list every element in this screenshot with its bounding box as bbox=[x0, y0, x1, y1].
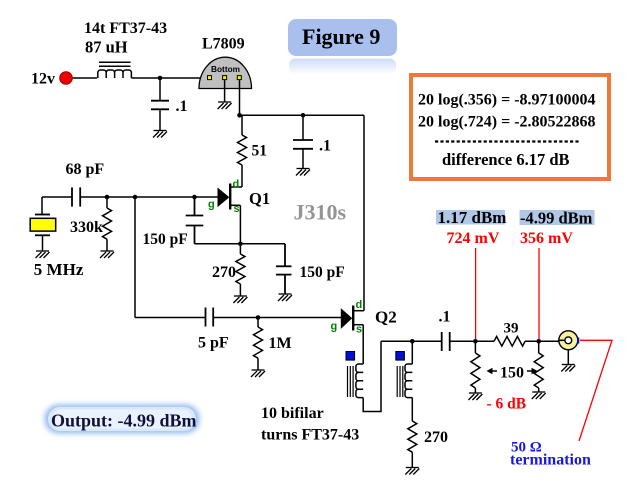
transistor Q1 J310 bbox=[218, 184, 242, 245]
capacitor C6 5 pF bbox=[206, 308, 214, 327]
blue tick at J1 bbox=[577, 338, 579, 344]
wire inductor to regulator pin1 bbox=[131, 77, 207, 79]
svg-text:Output: -4.99 dBm: Output: -4.99 dBm bbox=[51, 411, 197, 431]
svg-text:270: 270 bbox=[424, 429, 448, 446]
resistor R5 270 (secondary load) bbox=[408, 398, 417, 467]
ground below R3 bbox=[251, 370, 265, 377]
terminal 12v (red) bbox=[60, 72, 73, 85]
svg-text:.1: .1 bbox=[176, 98, 188, 115]
svg-text:87 uH: 87 uH bbox=[85, 38, 128, 57]
node junction feedback bbox=[133, 195, 138, 200]
red pointer to termination bbox=[579, 340, 612, 441]
svg-text:termination: termination bbox=[510, 452, 591, 469]
svg-text:68 pF: 68 pF bbox=[66, 161, 105, 178]
node junction at x160 bbox=[158, 76, 163, 81]
svg-text:- 6 dB: - 6 dB bbox=[487, 396, 527, 413]
ground below R2 bbox=[100, 251, 114, 258]
highlight box -4.99 dBm bbox=[520, 210, 595, 225]
svg-text:-4.99 dBm: -4.99 dBm bbox=[520, 208, 593, 227]
svg-text:39: 39 bbox=[504, 321, 519, 337]
svg-text:12v: 12v bbox=[31, 71, 55, 88]
svg-text:150 pF: 150 pF bbox=[143, 231, 188, 248]
svg-text:difference 6.17 dB: difference 6.17 dB bbox=[442, 150, 570, 169]
svg-text:150 pF: 150 pF bbox=[300, 264, 345, 281]
capacitor C5 150 pF (source bypass) bbox=[276, 244, 292, 294]
capacitor C7 .1 (output) bbox=[442, 332, 450, 351]
pin 2 of U1 bbox=[223, 76, 227, 80]
crystal Y1 5 MHz bbox=[30, 215, 56, 251]
svg-text:s: s bbox=[356, 324, 362, 336]
svg-text:d: d bbox=[233, 179, 240, 191]
svg-text:g: g bbox=[208, 199, 215, 211]
node junction 330k top bbox=[105, 195, 110, 200]
node junction Q1 source bbox=[238, 242, 243, 247]
svg-text:Figure 9: Figure 9 bbox=[302, 24, 380, 49]
resistor R2 330k bbox=[103, 197, 112, 251]
svg-text:d: d bbox=[356, 299, 363, 311]
node junction Q1 gate bbox=[192, 195, 197, 200]
wire junction down to C2 bbox=[302, 115, 304, 139]
wire U1 pin2 to ground bbox=[224, 80, 226, 102]
ground below R8 bbox=[532, 392, 546, 399]
ground below R6 bbox=[468, 393, 482, 400]
capacitor C2 .1 bbox=[293, 140, 313, 149]
figure title box bbox=[288, 19, 397, 75]
wire C3 to Q1 gate bbox=[80, 196, 218, 198]
wire U1 pin3 down to 9v rail bbox=[239, 80, 241, 115]
transformer T1 secondary winding bbox=[405, 364, 412, 398]
wire C1 to ground bbox=[159, 109, 161, 130]
svg-text:5 MHz: 5 MHz bbox=[34, 260, 84, 279]
label 150 with arrows bbox=[487, 365, 538, 382]
resistor R4 270 bbox=[236, 244, 245, 296]
svg-text:.1: .1 bbox=[439, 309, 451, 326]
svg-text:20 log(.724) = -2.80522868: 20 log(.724) = -2.80522868 bbox=[418, 114, 596, 131]
red probe line 356mV bbox=[538, 248, 540, 339]
svg-text:s: s bbox=[234, 203, 240, 215]
resistor R3 1M bbox=[254, 318, 263, 370]
connector J1 output jack bbox=[559, 331, 578, 364]
svg-text:150: 150 bbox=[500, 365, 524, 382]
ground below C1 bbox=[153, 131, 167, 138]
node junction pad right bbox=[536, 339, 541, 344]
wire secondary top bbox=[411, 341, 413, 364]
svg-text:1M: 1M bbox=[269, 335, 292, 352]
wire feedback horizontal to C6 bbox=[135, 317, 206, 319]
regulator U1 L7809 body bbox=[199, 57, 252, 88]
svg-text:Q2: Q2 bbox=[375, 308, 397, 327]
resistor R1 51 bbox=[238, 115, 247, 187]
wire gate line crystal to Q1 bbox=[42, 196, 72, 198]
ferrite marker (right blue square) bbox=[396, 352, 405, 361]
wire C2 to ground bbox=[302, 149, 304, 168]
resistor R6 150 (shunt left) bbox=[471, 341, 480, 392]
svg-text:g: g bbox=[331, 321, 338, 333]
svg-text:L7809: L7809 bbox=[202, 36, 245, 53]
node junction at C2 bbox=[301, 113, 306, 118]
ground below U1 pin2 bbox=[218, 102, 232, 109]
wire junction down to C1 bbox=[159, 78, 161, 100]
wire feedback vertical bbox=[134, 197, 136, 318]
node junction 1M top bbox=[256, 315, 261, 320]
output level callout bbox=[45, 405, 200, 434]
highlight box 1.17 dBm bbox=[436, 210, 505, 225]
ground below R4 bbox=[233, 296, 247, 303]
svg-text:724 mV: 724 mV bbox=[447, 230, 500, 247]
svg-text:51: 51 bbox=[252, 143, 268, 160]
red probe line 724mV bbox=[475, 248, 477, 339]
wire output rail bbox=[381, 340, 442, 342]
wire source line horizontal bbox=[195, 243, 286, 245]
wire 12v to inductor bbox=[72, 77, 97, 79]
ferrite marker (left blue square) bbox=[346, 352, 355, 361]
transformer T1 primary winding bbox=[356, 364, 363, 398]
wire 9v rail down right side to Q2 drain bbox=[363, 115, 365, 310]
svg-text:J310s: J310s bbox=[294, 200, 347, 225]
ground below R5 bbox=[405, 468, 419, 475]
svg-text:Bottom: Bottom bbox=[211, 64, 240, 74]
svg-text:356 mV: 356 mV bbox=[520, 230, 573, 247]
transistor Q2 J310 bbox=[341, 306, 364, 365]
node junction secondary top bbox=[410, 339, 415, 344]
capacitor C4 150 pF (gate-source) bbox=[186, 197, 204, 244]
svg-text:270: 270 bbox=[212, 264, 236, 281]
ground below C5 bbox=[278, 294, 292, 301]
ground below crystal bbox=[36, 251, 50, 258]
capacitor C3 68 pF bbox=[72, 187, 80, 206]
resistor R7 39 (series) bbox=[494, 337, 559, 347]
svg-text:Q1: Q1 bbox=[249, 189, 270, 208]
svg-text:10 bifilar: 10 bifilar bbox=[261, 405, 324, 422]
inductor L1 14t FT37-43 87uH bbox=[98, 62, 132, 78]
ground below C2 bbox=[296, 169, 310, 176]
svg-text:20 log(.356) = -8.97100004: 20 log(.356) = -8.97100004 bbox=[418, 92, 596, 109]
svg-text:.1: .1 bbox=[319, 138, 331, 155]
transformer T1 core (right) bbox=[397, 366, 403, 397]
pin 3 of U1 bbox=[237, 76, 241, 80]
svg-text:330k: 330k bbox=[70, 219, 103, 236]
ground below J1 bbox=[561, 365, 575, 372]
svg-text:turns FT37-43: turns FT37-43 bbox=[261, 427, 359, 444]
wire primary bottom to output node bbox=[363, 341, 381, 411]
capacitor C1 .1 bbox=[151, 101, 169, 110]
wire crystal stem bbox=[41, 197, 43, 215]
svg-text:5 pF: 5 pF bbox=[198, 334, 229, 351]
svg-text:14t FT37-43: 14t FT37-43 bbox=[84, 20, 167, 37]
annotation box (orange) bbox=[411, 75, 609, 179]
wire C6 to Q2 gate bbox=[213, 317, 341, 319]
pin 1 of U1 bbox=[208, 76, 212, 80]
node 9v rail junction bbox=[237, 113, 242, 118]
wire C7 to pad bbox=[450, 340, 494, 342]
node junction pad left bbox=[473, 339, 478, 344]
svg-text:1.17 dBm: 1.17 dBm bbox=[438, 208, 507, 227]
resistor R8 150 (shunt right) bbox=[534, 341, 543, 391]
wire 9v rail horizontal bbox=[240, 114, 365, 116]
transformer T1 core (left) bbox=[348, 366, 354, 397]
